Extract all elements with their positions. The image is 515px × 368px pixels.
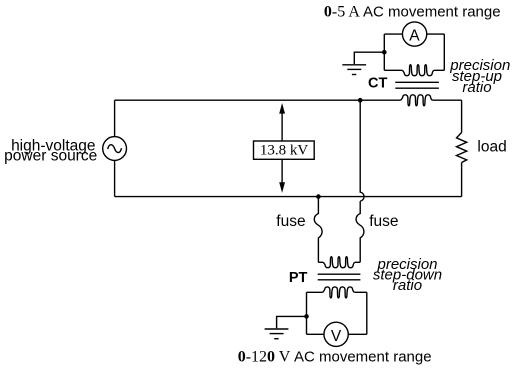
svg-text:A: A: [409, 28, 420, 45]
ammeter loop bottom wires: [384, 69, 444, 71]
node junction dot ammeter ground tap: [382, 50, 387, 55]
wire top bus left segment: [115, 99, 401, 101]
voltage arrow lower: [281, 159, 283, 182]
svg-text:fuse: fuse: [276, 213, 305, 230]
fuse right: [356, 201, 364, 262]
transformer CT core: [395, 82, 439, 88]
wire top bus right segment: [432, 99, 461, 101]
voltmeter loop bottom wires: [307, 333, 367, 335]
wire bottom bus: [115, 196, 462, 198]
voltmeter loop right wire: [366, 292, 368, 334]
node junction dot bottom bus: [316, 194, 321, 199]
ac source high-voltage power source: [103, 137, 127, 161]
fuse left: [314, 197, 322, 263]
ammeter loop right wire: [443, 34, 445, 70]
transformer PT secondary winding coil: [307, 291, 323, 293]
svg-text:fuse: fuse: [369, 213, 398, 230]
svg-text:load: load: [477, 139, 506, 156]
ammeter loop top wires: [384, 33, 444, 35]
svg-text:V: V: [331, 328, 342, 345]
wire left side upper: [114, 100, 116, 136]
svg-text:power source: power source: [4, 148, 97, 165]
wire left side lower: [114, 160, 116, 196]
transformer CT primary winding coil: [401, 95, 433, 106]
voltage arrow upper: [281, 113, 283, 141]
wire right side lower: [461, 163, 463, 197]
resistor load: [457, 133, 467, 163]
transformer PT primary winding coil: [318, 261, 323, 263]
svg-text:CT: CT: [368, 76, 387, 92]
wire vertical from top bus to PT with crossover hop: [360, 100, 364, 201]
node junction dot top bus: [358, 98, 363, 103]
wire right side upper: [461, 100, 463, 132]
svg-text:PT: PT: [289, 270, 308, 286]
ground symbol PT: [265, 328, 289, 330]
node junction dot voltmeter ground tap: [304, 314, 309, 319]
label 13.8 kV box: [254, 141, 315, 159]
svg-text:0-5 A AC movement range: 0-5 A AC movement range: [324, 4, 501, 21]
svg-text:ratio: ratio: [393, 277, 422, 294]
voltmeter loop left wire: [306, 292, 308, 334]
svg-text:ratio: ratio: [462, 79, 491, 96]
ground symbol CT: [342, 64, 366, 66]
transformer PT core: [318, 274, 361, 280]
ammeter loop left wire: [383, 34, 385, 70]
wire ground tap PT: [277, 316, 307, 328]
voltmeter: [324, 322, 348, 346]
ammeter: [402, 22, 426, 46]
svg-text:0-120 V AC movement range: 0-120 V AC movement range: [238, 348, 432, 365]
wire ground tap CT: [354, 52, 384, 64]
svg-text:13.8 kV: 13.8 kV: [260, 143, 309, 159]
transformer CT secondary winding coil: [402, 65, 434, 76]
